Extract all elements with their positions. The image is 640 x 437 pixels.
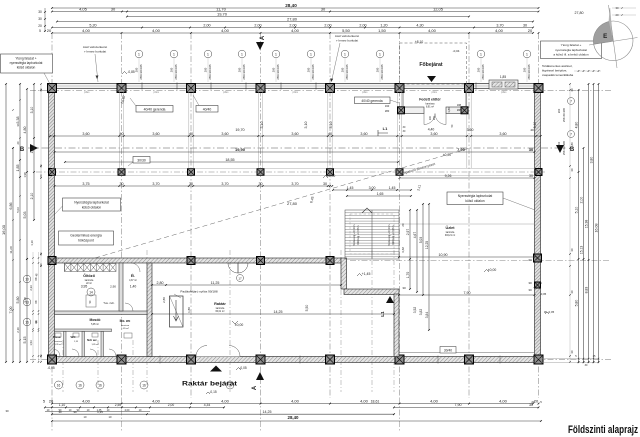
- svg-text:5,80: 5,80: [16, 297, 20, 304]
- top dimension row windows: [52, 27, 533, 29]
- block axis dashed to right wall: [350, 259, 610, 261]
- svg-text:pillés: pillés: [84, 91, 90, 94]
- svg-text:3,80: 3,80: [589, 157, 593, 164]
- svg-text:Mo. wc: Mo. wc: [120, 319, 131, 323]
- svg-text:7,90: 7,90: [464, 291, 471, 295]
- svg-text:1,65: 1,65: [377, 192, 384, 196]
- svg-text:-0,15: -0,15: [209, 390, 216, 394]
- svg-text:6,86: 6,86: [9, 203, 13, 210]
- svg-text:±0,00: ±0,00: [488, 268, 497, 272]
- stair up arrow: [362, 208, 372, 213]
- svg-text:4,00: 4,00: [360, 398, 369, 403]
- svg-text:30: 30: [570, 350, 574, 354]
- window axis bubbles top: [135, 50, 143, 58]
- svg-text:15,38: 15,38: [584, 220, 588, 229]
- svg-text:18,55: 18,55: [225, 158, 234, 162]
- svg-text:5,10: 5,10: [574, 207, 578, 214]
- svg-text:30: 30: [528, 258, 532, 262]
- svg-text:2,00: 2,00: [203, 23, 210, 27]
- svg-text:30: 30: [570, 168, 574, 172]
- section marker B right: [556, 145, 564, 153]
- svg-text:Nyersstégla lapburkolat: Nyersstégla lapburkolat: [74, 201, 109, 205]
- svg-text:hőközpont: hőközpont: [78, 239, 94, 243]
- column 40/40 bottom axis 5: [326, 355, 335, 364]
- svg-text:±0,00: ±0,00: [235, 323, 244, 327]
- section marker A bottom: [256, 372, 264, 380]
- svg-text:Geotermikus energia: Geotermikus energia: [70, 234, 102, 238]
- svg-text:255×30×165: 255×30×165: [174, 64, 178, 80]
- bottom dim row 28,40: [52, 420, 541, 422]
- axis bubbles left: [23, 275, 31, 283]
- bottom wall: [52, 357, 539, 363]
- left dim column 4: [26, 89, 28, 259]
- svg-text:5,80: 5,80: [574, 300, 578, 307]
- svg-text:7,90: 7,90: [455, 403, 462, 407]
- svg-text:1: 1: [173, 53, 175, 57]
- svg-text:30: 30: [321, 6, 326, 11]
- compass rose: [589, 5, 638, 68]
- label box Geotermikus: [59, 231, 114, 245]
- small shower rect: [86, 295, 96, 307]
- svg-text:19,70: 19,70: [235, 128, 244, 132]
- svg-text:2,00: 2,00: [254, 23, 261, 27]
- svg-text:pillés: pillés: [362, 91, 368, 94]
- stair dashed rail: [350, 214, 394, 254]
- svg-text:Él.: Él.: [131, 273, 135, 278]
- svg-text:200: 200: [307, 67, 311, 72]
- svg-text:4,80: 4,80: [23, 127, 27, 134]
- svg-text:Földszinti alaprajz: Földszinti alaprajz: [568, 424, 638, 436]
- svg-text:karnisza: karnisza: [216, 307, 225, 310]
- svg-text:1,45: 1,45: [347, 186, 354, 190]
- svg-text:pillés: pillés: [501, 91, 507, 94]
- label box 30/30: [133, 157, 150, 164]
- attic hatch opening: [170, 296, 184, 327]
- svg-text:4,34: 4,34: [204, 403, 211, 407]
- wc partition walls: [55, 329, 112, 332]
- svg-text:5,03: 5,03: [16, 207, 20, 213]
- svg-text:2,80: 2,80: [162, 297, 166, 303]
- right dim column 4: [593, 84, 595, 362]
- door arcs wc: [53, 349, 60, 356]
- svg-text:200: 200: [557, 108, 561, 113]
- svg-text:255×30×165: 255×30×165: [563, 140, 566, 155]
- svg-text:30: 30: [570, 88, 574, 92]
- svg-text:3,10: 3,10: [329, 122, 333, 129]
- svg-text:4,00: 4,00: [495, 28, 504, 33]
- svg-text:28,40: 28,40: [288, 415, 300, 420]
- svg-text:40: 40: [328, 132, 332, 136]
- svg-text:200: 200: [238, 67, 242, 72]
- svg-text:30: 30: [111, 6, 116, 11]
- svg-text:4,00: 4,00: [221, 398, 230, 403]
- right dim column 16,08: [598, 84, 600, 362]
- label box Nyersstegla left: [63, 198, 121, 211]
- svg-text:60,01 m²: 60,01 m²: [215, 310, 224, 313]
- column 40/40 top axis 3: [187, 84, 196, 93]
- axis bubbles right: [568, 98, 575, 105]
- svg-text:2,90: 2,90: [110, 285, 116, 289]
- svg-text:Acél vázszerkezet: Acél vázszerkezet: [335, 34, 359, 38]
- top dimension row 19,70: [127, 16, 469, 18]
- lockers hatched: [65, 264, 117, 272]
- svg-text:16,00: 16,00: [1, 224, 6, 235]
- svg-text:3,75: 3,75: [82, 182, 89, 186]
- svg-text:-0,04: -0,04: [453, 49, 460, 53]
- block wall step vertical: [341, 258, 347, 289]
- svg-text:légréssel beépítve,: légréssel beépítve,: [542, 69, 567, 73]
- svg-text:30: 30: [570, 290, 574, 294]
- svg-text:255×30×165: 255×30×165: [481, 64, 485, 80]
- column 40/40 bottom axis 2: [117, 355, 126, 364]
- svg-text:16: 16: [98, 384, 102, 388]
- interior dim row 3,60/40: [50, 135, 541, 137]
- svg-text:20: 20: [401, 223, 405, 227]
- left dim column outer: [5, 84, 7, 362]
- svg-text:2,97: 2,97: [406, 229, 410, 236]
- svg-text:188: 188: [457, 104, 462, 107]
- svg-text:27,80: 27,80: [575, 11, 584, 15]
- svg-text:3,60: 3,60: [499, 132, 506, 136]
- svg-text:1,80: 1,80: [187, 307, 191, 313]
- svg-text:1: 1: [138, 53, 140, 57]
- section line B-B: [28, 147, 566, 149]
- svg-text:255×30×165: 255×30×165: [345, 64, 349, 80]
- svg-text:4,00: 4,00: [152, 28, 161, 33]
- block inner wall horizontal y311: [55, 311, 148, 315]
- svg-text:30: 30: [38, 17, 42, 21]
- bottom dim row 14,25: [52, 413, 394, 415]
- svg-text:15,13: 15,13: [579, 246, 583, 255]
- svg-text:30: 30: [529, 147, 534, 152]
- right dim column 15,13: [583, 148, 585, 362]
- column 40/40 bottom axis 4: [256, 355, 265, 364]
- left wall hatched: [49, 84, 55, 363]
- right wall hatched: [535, 84, 541, 363]
- svg-text:3,70: 3,70: [221, 182, 228, 186]
- svg-text:30/40: 30/40: [444, 349, 452, 353]
- svg-text:B: B: [20, 147, 25, 153]
- svg-text:200: 200: [523, 67, 527, 72]
- svg-text:17: 17: [238, 277, 242, 281]
- svg-text:5,03: 5,03: [23, 212, 27, 219]
- svg-text:-0,05: -0,05: [47, 366, 54, 370]
- svg-text:19,70: 19,70: [217, 11, 228, 16]
- svg-text:255×30×165: 255×30×165: [139, 64, 143, 80]
- svg-text:1,85: 1,85: [500, 75, 506, 79]
- svg-text:3,60: 3,60: [430, 132, 437, 136]
- svg-text:16: 16: [57, 384, 61, 388]
- svg-text:4,00: 4,00: [428, 28, 437, 33]
- dim row 7,90: [399, 294, 535, 296]
- top dimension row 4,05/11,70/12,05: [52, 11, 539, 13]
- bottom dim sub row 2: [45, 411, 150, 413]
- interior dim row 19,90: [55, 151, 535, 153]
- svg-text:30: 30: [258, 182, 262, 186]
- block wall right vertical: [394, 294, 399, 357]
- svg-text:90: 90: [73, 410, 77, 414]
- svg-text:Mélység +13,08 m: Mélység +13,08 m: [393, 226, 395, 245]
- svg-text:Tus. zuh.: Tus. zuh.: [103, 301, 115, 305]
- svg-text:1,53: 1,53: [29, 340, 33, 346]
- svg-text:3,60: 3,60: [360, 132, 367, 136]
- suspended ceiling diagonal leader: [95, 148, 470, 258]
- svg-text:8,91 m²: 8,91 m²: [426, 106, 434, 109]
- svg-text:20: 20: [47, 28, 52, 33]
- svg-text:30: 30: [523, 23, 527, 27]
- left dim column 3: [19, 84, 21, 362]
- Raktar bejarat arrow: [210, 366, 222, 372]
- svg-text:3,95: 3,95: [81, 285, 88, 289]
- svg-text:1,98: 1,98: [23, 172, 27, 178]
- column 40/40 bottom axis 8: [534, 355, 543, 364]
- svg-text:A: A: [260, 35, 266, 40]
- block top wall: [49, 258, 342, 263]
- svg-text:3,60: 3,60: [291, 132, 298, 136]
- svg-text:Mosdó: Mosdó: [90, 318, 101, 322]
- left dim column 2: [12, 148, 14, 362]
- fixtures in wc rooms: [55, 333, 61, 337]
- column 40/40 top axis 4: [256, 84, 265, 93]
- circled 14: [87, 288, 95, 296]
- svg-text:3,82: 3,82: [419, 309, 423, 316]
- svg-text:1: 1: [207, 53, 209, 57]
- svg-text:Acél vázszerkezet: Acél vázszerkezet: [83, 45, 107, 49]
- svg-text:4,80: 4,80: [574, 122, 578, 129]
- svg-text:16,08: 16,08: [594, 224, 598, 233]
- svg-text:4,37 m²: 4,37 m²: [129, 279, 137, 282]
- Fobejarat arrow: [427, 76, 436, 82]
- svg-text:30: 30: [323, 182, 327, 186]
- svg-text:40/40: 40/40: [203, 107, 212, 111]
- svg-text:1,65 m²: 1,65 m²: [121, 327, 129, 330]
- svg-text:4,00: 4,00: [499, 398, 508, 403]
- svg-text:18,61: 18,61: [371, 400, 380, 404]
- Raktar double door from Uzlet: [228, 263, 238, 273]
- section marker L1 bottom: [386, 296, 394, 303]
- svg-text:2,80: 2,80: [157, 281, 164, 285]
- svg-text:1: 1: [241, 53, 243, 57]
- svg-text:30: 30: [119, 182, 123, 186]
- box 30/40: [440, 347, 456, 354]
- column 40/40 bottom axis 1: [48, 355, 57, 364]
- svg-text:2,00: 2,00: [289, 23, 296, 27]
- porch pier left: [398, 107, 405, 114]
- bottom dim row 7,90 right: [394, 406, 539, 408]
- svg-text:Szélesség +16,90 m: Szélesség +16,90 m: [354, 224, 356, 245]
- svg-text:4,00: 4,00: [82, 28, 91, 33]
- svg-text:28,40: 28,40: [285, 3, 297, 8]
- column 40/40 top axis 8: [534, 84, 543, 93]
- block piers: [187, 257, 195, 265]
- svg-text:1,45: 1,45: [389, 186, 396, 190]
- svg-text:Mélység +13,08 m: Mélység +13,08 m: [358, 226, 360, 245]
- svg-text:Fedett előtér: Fedett előtér: [419, 98, 441, 102]
- window mullion ticks top wall: [141, 83, 143, 90]
- svg-text:200: 200: [477, 67, 481, 72]
- svg-text:A: A: [252, 385, 258, 390]
- svg-text:255×30×165: 255×30×165: [208, 64, 212, 80]
- svg-text:külső oldalon: külső oldalon: [465, 199, 484, 203]
- svg-text:1,10: 1,10: [30, 240, 34, 246]
- svg-text:3,10: 3,10: [304, 122, 308, 129]
- svg-text:3,38: 3,38: [16, 117, 20, 124]
- svg-text:5,03: 5,03: [419, 237, 423, 244]
- svg-text:3,60: 3,60: [82, 132, 89, 136]
- svg-text:3,00: 3,00: [369, 186, 376, 190]
- svg-text:5,50: 5,50: [305, 305, 309, 312]
- svg-text:7: 7: [570, 100, 572, 104]
- svg-text:30: 30: [5, 409, 9, 413]
- svg-text:1,50: 1,50: [378, 28, 387, 33]
- svg-text:Öltöző: Öltöző: [83, 273, 95, 278]
- Raktar dims: [152, 313, 394, 315]
- svg-text:pillés: pillés: [431, 91, 437, 94]
- svg-text:3,60: 3,60: [467, 128, 474, 132]
- svg-text:3,10: 3,10: [533, 122, 537, 129]
- svg-text:200: 200: [135, 67, 139, 72]
- right dim columns top ticks: [574, 70, 601, 72]
- svg-text:30/30: 30/30: [137, 158, 146, 162]
- dim row 10,90: [399, 256, 535, 258]
- svg-text:255×30×165: 255×30×165: [527, 64, 531, 80]
- svg-text:190: 190: [385, 104, 390, 108]
- svg-text:30: 30: [528, 288, 532, 292]
- svg-text:4,80: 4,80: [570, 142, 574, 148]
- Raktar bejarat door opening: [196, 356, 240, 358]
- porch canopy dashed outline: [400, 43, 467, 84]
- svg-text:1: 1: [344, 53, 346, 57]
- svg-text:255×30×165: 255×30×165: [276, 64, 280, 80]
- svg-text:10: 10: [228, 384, 232, 388]
- svg-text:pillés: pillés: [292, 91, 298, 94]
- svg-text:Nyersstégla lapburkolat: Nyersstégla lapburkolat: [458, 194, 493, 198]
- svg-text:200: 200: [557, 141, 561, 146]
- svg-text:pillés: pillés: [223, 91, 229, 94]
- bottom wall ticks: [159, 356, 161, 364]
- svg-text:3,70: 3,70: [152, 182, 159, 186]
- svg-text:2,10: 2,10: [30, 193, 34, 200]
- label box 40/40 gerenda right: [355, 97, 391, 104]
- line y352 right: [399, 352, 535, 354]
- column 40/40 top axis 7: [465, 84, 474, 93]
- top dimension row 27,80: [57, 21, 533, 23]
- label box 40/40 gerenda left: [136, 106, 173, 113]
- svg-text:Ytong falazat +: Ytong falazat +: [15, 57, 36, 61]
- svg-text:9,26: 9,26: [445, 174, 452, 178]
- svg-text:-0,85: -0,85: [127, 70, 134, 74]
- svg-text:8,83: 8,83: [584, 287, 588, 294]
- svg-text:10,90: 10,90: [439, 253, 448, 257]
- Raktar dim row: [152, 284, 341, 286]
- svg-text:pillés: pillés: [153, 91, 159, 94]
- svg-text:külső oldalon: külső oldalon: [17, 66, 36, 70]
- svg-text:5,20: 5,20: [89, 23, 96, 27]
- secondary axes bottom rooms: [62, 340, 64, 392]
- svg-text:200: 200: [376, 67, 380, 72]
- svg-text:3,10: 3,10: [30, 107, 34, 114]
- right dim near-wall ticks: [569, 84, 571, 362]
- svg-text:E: E: [603, 33, 607, 40]
- svg-text:+ lemez burkolat: + lemez burkolat: [336, 39, 358, 43]
- svg-text:4,00: 4,00: [430, 398, 439, 403]
- svg-text:200: 200: [433, 115, 436, 120]
- block inner wall x147: [147, 263, 152, 357]
- porch recessed wall right segment: [446, 107, 466, 114]
- svg-text:-0,05: -0,05: [540, 292, 547, 296]
- svg-text:20: 20: [528, 28, 533, 33]
- svg-text:1,85: 1,85: [16, 165, 20, 172]
- svg-text:3,70: 3,70: [291, 182, 298, 186]
- right dim column 15,38 8,83: [588, 84, 590, 362]
- svg-text:3,60: 3,60: [152, 132, 159, 136]
- column 40/40 bottom axis 7: [465, 355, 474, 364]
- svg-text:3,38: 3,38: [23, 297, 27, 303]
- svg-text:40/40 gerenda: 40/40 gerenda: [361, 99, 382, 103]
- beam lines row2: [52, 168, 535, 170]
- svg-text:288: 288: [457, 109, 462, 112]
- horizontal axis bottom wall: [30, 359, 612, 361]
- stair dim row: [333, 189, 411, 191]
- svg-text:L1: L1: [380, 311, 385, 317]
- svg-text:4,00: 4,00: [152, 398, 161, 403]
- svg-text:2,00: 2,00: [359, 23, 366, 27]
- svg-text:nyersstégla lapburkolat: nyersstégla lapburkolat: [555, 48, 587, 52]
- svg-text:4,30: 4,30: [416, 23, 423, 27]
- svg-text:Padlásfeljáró nyílás 90/188: Padlásfeljáró nyílás 90/188: [180, 290, 217, 294]
- vertical grid axes: [51, 33, 53, 398]
- svg-text:nyersstégla lapburkolat: nyersstégla lapburkolat: [10, 61, 43, 65]
- svg-text:1,70: 1,70: [406, 272, 410, 279]
- svg-text:27,80: 27,80: [287, 201, 298, 206]
- svg-text:5,15: 5,15: [23, 337, 27, 344]
- svg-text:255×30×165: 255×30×165: [311, 64, 315, 80]
- svg-text:2,00: 2,00: [168, 403, 175, 407]
- label box Ytong left: [1, 54, 53, 73]
- svg-text:12,05: 12,05: [433, 6, 444, 11]
- svg-text:1: 1: [480, 53, 482, 57]
- column 40/40 top axis 6: [395, 84, 404, 93]
- svg-text:30: 30: [38, 10, 42, 14]
- svg-text:karnisza: karnisza: [121, 324, 130, 327]
- svg-text:3,10: 3,10: [260, 122, 264, 129]
- svg-text:14,25: 14,25: [263, 410, 272, 414]
- interior dim row 3,75/30: [55, 185, 331, 187]
- svg-text:12,25: 12,25: [425, 241, 429, 249]
- svg-text:Toldásmentes acéltool,: Toldásmentes acéltool,: [542, 64, 573, 68]
- right dim column 5,10 5,80: [578, 90, 580, 362]
- svg-text:L1: L1: [383, 126, 388, 131]
- svg-text:2,50: 2,50: [115, 403, 122, 407]
- uzlet line y224: [399, 223, 535, 225]
- svg-text:1: 1: [275, 53, 277, 57]
- top dimension row axes 4,00: [52, 32, 533, 34]
- svg-text:4,00: 4,00: [82, 398, 91, 403]
- svg-text:3,60: 3,60: [221, 132, 228, 136]
- svg-text:255×30×165: 255×30×165: [563, 107, 566, 122]
- svg-text:Főbejárat: Főbejárat: [419, 62, 443, 68]
- horizontal axis top wall: [30, 90, 612, 92]
- label box Nyersstegla right: [447, 192, 503, 205]
- entrance double door arcs: [424, 114, 435, 125]
- label box Ytong right: [541, 41, 602, 59]
- svg-text:csapadék lemezállásba: csapadék lemezállásba: [542, 73, 574, 77]
- svg-text:7,00: 7,00: [9, 307, 13, 314]
- svg-text:255×30×165: 255×30×165: [380, 64, 384, 80]
- svg-text:±0,00: ±0,00: [443, 153, 451, 157]
- block wall step horizontal: [344, 289, 399, 295]
- columns 30/30 middle row: [49, 169, 56, 176]
